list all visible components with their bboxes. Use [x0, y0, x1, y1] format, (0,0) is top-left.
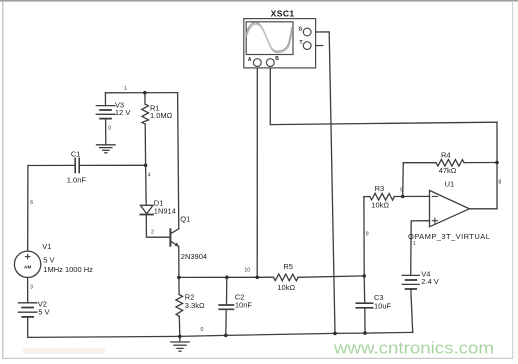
svg-text:8: 8	[498, 180, 501, 186]
junction rail C3 dot	[363, 331, 367, 335]
svg-text:XSC1: XSC1	[271, 8, 295, 18]
svg-text:0: 0	[201, 327, 204, 333]
junction scope A dot	[255, 276, 259, 280]
svg-text:U1: U1	[445, 180, 455, 189]
junction minus input dot	[401, 195, 405, 199]
wire node 6 column down to V1	[27, 166, 29, 252]
capacitor C2	[219, 277, 233, 335]
wire D1 to Q1 base (node 2)	[146, 215, 170, 238]
svg-text:1: 1	[413, 241, 416, 247]
svg-text:5 V: 5 V	[38, 308, 49, 317]
battery V4	[402, 275, 419, 289]
svg-text:10kΩ: 10kΩ	[277, 283, 295, 292]
resistor R5	[273, 274, 298, 281]
wire V4 bottom to rail	[411, 289, 413, 332]
svg-text:Q1: Q1	[180, 215, 190, 224]
ground (bottom rail)	[171, 336, 189, 351]
wire node 9 column (R3 left down to node 10 row)	[363, 197, 365, 276]
wire scope G terminal to rail	[311, 32, 335, 334]
svg-text:10kΩ: 10kΩ	[371, 201, 389, 210]
junction C2 top dot	[225, 276, 229, 280]
label R5	[277, 262, 295, 292]
svg-text:5 V: 5 V	[43, 255, 54, 264]
junction node 4 dot	[144, 164, 148, 168]
wire D1 top stub	[145, 165, 148, 205]
svg-text:1.0MΩ: 1.0MΩ	[150, 111, 173, 120]
svg-text:5: 5	[400, 188, 403, 194]
svg-text:B: B	[275, 56, 279, 62]
terminal T	[303, 42, 311, 50]
wire R4 right to output junction	[464, 162, 497, 164]
label V1	[42, 242, 93, 274]
wire op-amp plus input to V4 (node 1)	[411, 221, 430, 276]
label U1	[408, 180, 490, 241]
wire V3 top stub	[104, 93, 106, 106]
svg-text:1.0nF: 1.0nF	[67, 175, 87, 184]
wire C1 row left (node 6 top)	[28, 164, 75, 166]
svg-text:A: A	[248, 57, 252, 63]
frame left border	[2, 1, 4, 359]
wire bottom rail (node 0)	[28, 332, 413, 337]
svg-text:C1: C1	[71, 150, 81, 159]
svg-text:OPAMP_3T_VIRTUAL: OPAMP_3T_VIRTUAL	[408, 232, 490, 241]
battery V3	[96, 106, 114, 119]
capacitor C1	[75, 158, 79, 172]
wire R5 right to node 9 junction	[298, 276, 364, 277]
wire V1 to V2 (node 3)	[27, 278, 29, 303]
oscilloscope XSC1	[244, 19, 316, 68]
svg-text:2: 2	[151, 230, 154, 236]
svg-text:T: T	[300, 40, 303, 46]
label V4	[421, 269, 439, 286]
junction emitter/R2 dot	[177, 276, 181, 280]
junction node 1 dot	[143, 91, 147, 95]
terminal G	[303, 28, 311, 36]
wire R3 right to op-amp minus input	[394, 195, 429, 197]
scope terminal letters	[248, 26, 303, 62]
wire scope B channel down and across	[270, 67, 497, 125]
source V1 (AM)	[14, 251, 40, 277]
label R3	[371, 184, 389, 210]
resistor R2	[176, 277, 183, 336]
junction rail C2 dot	[224, 334, 228, 338]
label V2	[38, 300, 50, 317]
op-amp U1	[430, 190, 470, 226]
wire R4 left vertical	[402, 163, 405, 197]
scope trace A	[246, 23, 292, 52]
svg-text:10nF: 10nF	[235, 301, 253, 310]
svg-text:3.3kΩ: 3.3kΩ	[185, 301, 205, 310]
wire scope A channel down to node 10	[256, 67, 258, 278]
wire node 10 row (emitter to R5 to node 9 column)	[179, 276, 274, 278]
label D1	[154, 199, 176, 216]
label C2	[235, 293, 253, 310]
label V3	[115, 101, 130, 117]
svg-text:G: G	[299, 26, 303, 32]
wire op-amp output to R4 junction	[469, 122, 497, 209]
resistor R4	[436, 159, 464, 166]
decorative faint blob	[23, 348, 105, 355]
svg-text:V1: V1	[42, 242, 51, 251]
wire top rail node 1 (V3+ to Q1 collector column)	[105, 92, 177, 94]
svg-text:1: 1	[124, 86, 127, 92]
terminal B	[266, 59, 274, 67]
wire Q1 emitter down to node 10 row	[178, 246, 180, 277]
svg-text:12 V: 12 V	[115, 108, 130, 117]
transistor Q1	[170, 229, 179, 247]
svg-text:R4: R4	[441, 151, 451, 160]
junction node 9 dot	[362, 274, 366, 278]
svg-text:1N914: 1N914	[154, 207, 176, 216]
junction rail G-wire dot	[333, 332, 337, 336]
svg-text:AM: AM	[24, 264, 31, 269]
svg-text:R3: R3	[375, 184, 385, 193]
svg-text:2.4 V: 2.4 V	[421, 277, 439, 286]
wire R4 row left	[403, 162, 436, 164]
svg-text:3: 3	[30, 285, 33, 291]
svg-text:9: 9	[366, 232, 369, 238]
svg-text:R5: R5	[283, 262, 293, 271]
svg-text:10uF: 10uF	[374, 301, 392, 310]
svg-text:www.cntronics.com: www.cntronics.com	[333, 338, 494, 357]
capacitor C3	[356, 276, 372, 333]
svg-text:1MHz 1000 Hz: 1MHz 1000 Hz	[43, 265, 93, 274]
svg-text:0: 0	[108, 126, 111, 132]
frame top border	[0, 0, 518, 2]
svg-text:4: 4	[148, 173, 151, 179]
svg-text:47kΩ: 47kΩ	[439, 166, 457, 175]
wire V2 bottom to rail	[27, 317, 29, 338]
frame right border	[512, 1, 514, 359]
label R2	[185, 293, 205, 310]
wire V3 bottom stub to ground	[105, 119, 107, 145]
svg-text:2N3904: 2N3904	[181, 252, 207, 261]
terminal A	[253, 59, 261, 67]
resistor R3	[364, 193, 395, 200]
ground (below V3)	[97, 145, 116, 153]
junction output/R4 dot	[495, 161, 499, 165]
wire C1 to node 4	[80, 164, 146, 166]
battery V2	[18, 303, 36, 317]
junction rail ground dot	[178, 335, 182, 339]
label R4	[439, 151, 457, 175]
wire Q1 collector up to top rail	[178, 93, 179, 229]
frame bottom border	[2, 357, 513, 359]
label Q1	[180, 215, 207, 262]
svg-text:10: 10	[244, 268, 250, 274]
scope trace B	[246, 24, 292, 52]
resistor R1	[142, 93, 149, 166]
label C3	[374, 293, 392, 311]
diode D1	[140, 205, 153, 214]
label R1	[150, 104, 173, 120]
label C1	[67, 150, 87, 185]
wire scope T stub	[311, 45, 323, 47]
svg-text:6: 6	[30, 200, 33, 206]
